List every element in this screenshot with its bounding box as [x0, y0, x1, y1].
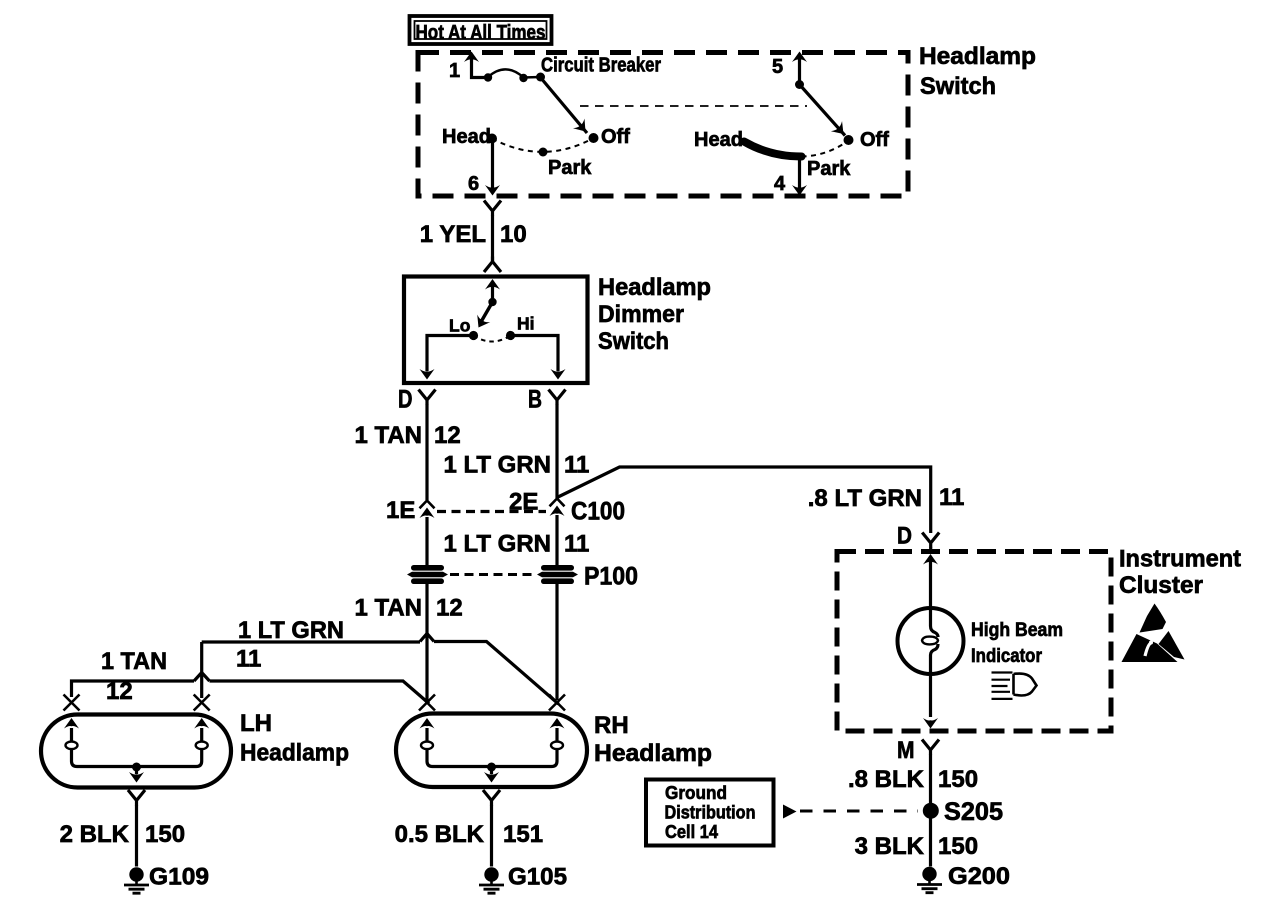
svg-text:Circuit Breaker: Circuit Breaker	[541, 55, 661, 77]
svg-text:Headlamp: Headlamp	[240, 740, 349, 767]
svg-text:High Beam: High Beam	[971, 620, 1063, 641]
svg-text:M: M	[897, 737, 915, 764]
svg-text:150: 150	[938, 766, 978, 793]
svg-text:P100: P100	[584, 563, 638, 591]
svg-text:Ground: Ground	[665, 783, 727, 803]
svg-text:.8 BLK: .8 BLK	[848, 766, 925, 793]
svg-text:6: 6	[468, 173, 479, 195]
svg-text:11: 11	[236, 646, 261, 673]
svg-text:Distribution: Distribution	[665, 803, 756, 823]
svg-text:151: 151	[503, 821, 543, 848]
svg-text:Headlamp: Headlamp	[598, 274, 711, 301]
svg-text:C100: C100	[571, 498, 625, 526]
svg-text:11: 11	[564, 531, 589, 558]
svg-text:Off: Off	[860, 129, 889, 151]
svg-text:D: D	[897, 523, 912, 550]
svg-text:Lo: Lo	[449, 316, 470, 336]
svg-text:4: 4	[774, 173, 786, 195]
svg-text:1E: 1E	[386, 497, 415, 524]
svg-text:1 YEL: 1 YEL	[420, 221, 486, 248]
svg-text:RH: RH	[594, 712, 629, 739]
svg-text:1 TAN: 1 TAN	[354, 595, 422, 622]
svg-text:LH: LH	[240, 710, 272, 737]
svg-text:Dimmer: Dimmer	[598, 301, 684, 328]
svg-text:S205: S205	[944, 798, 1003, 826]
svg-text:3 BLK: 3 BLK	[855, 833, 925, 860]
svg-text:Hi: Hi	[517, 314, 535, 334]
svg-text:12: 12	[436, 595, 463, 622]
svg-text:2 BLK: 2 BLK	[60, 821, 130, 848]
svg-text:.8 LT GRN: .8 LT GRN	[808, 485, 922, 512]
svg-text:150: 150	[145, 821, 185, 848]
svg-text:11: 11	[939, 484, 964, 511]
svg-text:10: 10	[500, 221, 527, 248]
svg-text:Cluster: Cluster	[1119, 572, 1203, 599]
svg-text:Headlamp: Headlamp	[919, 43, 1036, 70]
svg-text:Cell 14: Cell 14	[665, 822, 718, 842]
svg-text:Instrument: Instrument	[1119, 546, 1241, 573]
svg-text:5: 5	[772, 56, 783, 78]
svg-text:2E: 2E	[509, 489, 538, 516]
svg-text:Park: Park	[807, 158, 851, 180]
svg-text:1 LT GRN: 1 LT GRN	[238, 617, 344, 644]
svg-text:0.5 BLK: 0.5 BLK	[395, 821, 485, 848]
svg-text:1 LT GRN: 1 LT GRN	[443, 531, 551, 558]
svg-text:G105: G105	[508, 864, 567, 891]
svg-text:Off: Off	[601, 126, 630, 148]
svg-text:Switch: Switch	[920, 73, 996, 100]
svg-text:12: 12	[106, 678, 133, 705]
svg-text:1 TAN: 1 TAN	[101, 648, 167, 675]
svg-text:Hot At All Times: Hot At All Times	[416, 22, 546, 44]
svg-text:1 LT GRN: 1 LT GRN	[443, 452, 551, 479]
svg-text:G109: G109	[149, 864, 209, 891]
svg-text:1: 1	[449, 60, 460, 82]
svg-text:Headlamp: Headlamp	[594, 740, 712, 767]
svg-text:Indicator: Indicator	[971, 646, 1043, 667]
svg-text:12: 12	[434, 422, 461, 449]
svg-text:Switch: Switch	[598, 328, 669, 355]
svg-text:Park: Park	[548, 157, 592, 179]
svg-text:B: B	[528, 386, 542, 414]
svg-text:150: 150	[938, 833, 978, 860]
svg-text:Head: Head	[442, 126, 491, 148]
svg-text:G200: G200	[948, 863, 1010, 890]
svg-text:1 TAN: 1 TAN	[354, 422, 422, 449]
svg-text:11: 11	[564, 452, 589, 479]
svg-text:Head: Head	[694, 129, 743, 151]
svg-text:D: D	[398, 386, 413, 414]
